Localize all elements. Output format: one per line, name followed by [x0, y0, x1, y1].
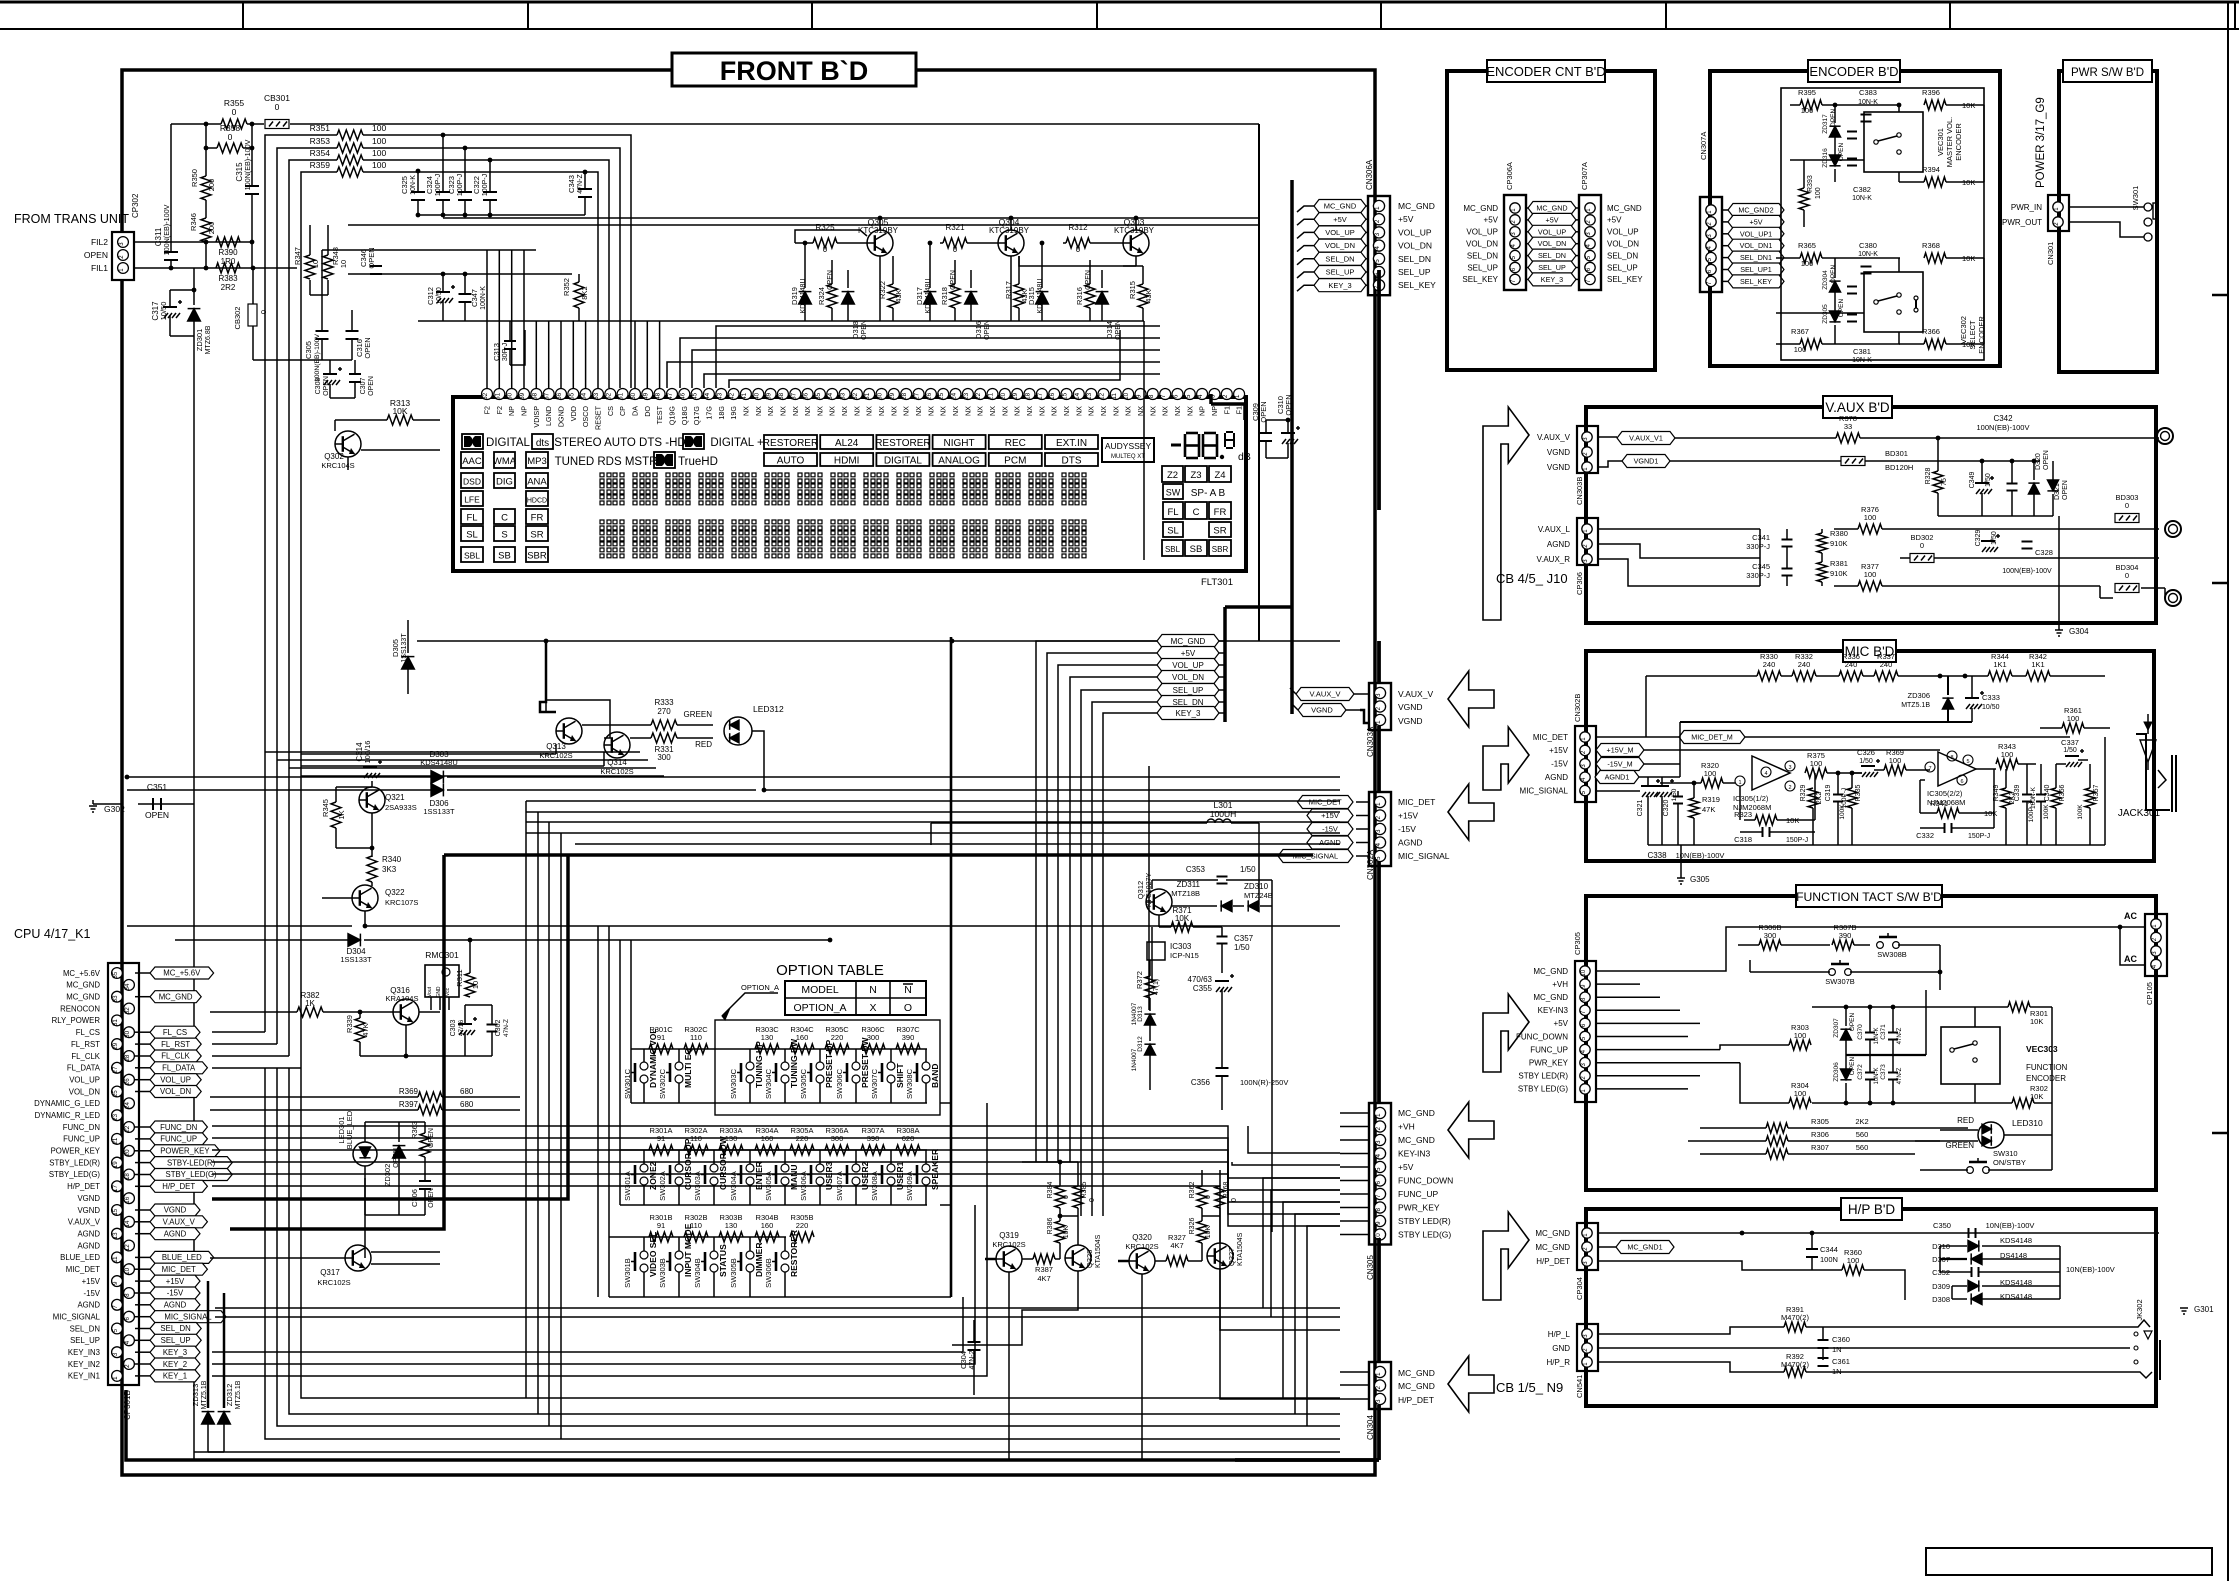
svg-text:MC_+5.6V: MC_+5.6V: [63, 969, 101, 978]
svg-text:BD301: BD301: [1885, 449, 1908, 458]
svg-text:20: 20: [124, 1149, 131, 1156]
svg-text:C353: C353: [1186, 865, 1206, 874]
FROM TRANS UNIT label: [14, 212, 129, 226]
svg-text:ZONE2: ZONE2: [648, 1161, 658, 1190]
svg-text:+15V: +15V: [1398, 811, 1418, 821]
ENCODER CNT B'D board box: [1447, 60, 1655, 370]
wire bottom bundle: [126, 1068, 1379, 1460]
svg-text:FR: FR: [531, 513, 544, 524]
svg-text:25: 25: [938, 392, 945, 400]
svg-text:MIC_DET: MIC_DET: [1533, 733, 1568, 742]
svg-text:KDS4148U: KDS4148U: [925, 278, 932, 313]
wire: [125, 775, 1340, 780]
svg-text:C383: C383: [1859, 88, 1877, 97]
svg-text:28: 28: [901, 392, 908, 400]
svg-text:CB302: CB302: [233, 307, 242, 330]
svg-text:43K: 43K: [1144, 289, 1153, 302]
wire: [1123, 265, 1143, 267]
svg-text:ZD306: ZD306: [1907, 691, 1930, 700]
capacitor C303: [450, 1005, 477, 1056]
ferrite BD301: [1670, 449, 2040, 472]
svg-text:DIGITAL: DIGITAL: [486, 437, 530, 449]
svg-text:STBY_LED(R): STBY_LED(R): [49, 1158, 100, 1167]
svg-text:2K2: 2K2: [1816, 792, 1823, 805]
svg-text:IC305(2/2): IC305(2/2): [1927, 789, 1963, 798]
row A resistors: [649, 1126, 920, 1155]
capacitor C372: [1857, 1064, 1880, 1085]
svg-text:C322: C322: [472, 176, 481, 194]
zener ZD312: [218, 1293, 242, 1452]
svg-text:130: 130: [725, 1221, 738, 1230]
capacitor C-open: [2007, 459, 2018, 516]
svg-text:H/P B'D: H/P B'D: [1848, 1202, 1896, 1217]
capacitor C329: [1975, 530, 2000, 552]
wire: [310, 225, 328, 295]
svg-text:MC_GND2: MC_GND2: [1738, 206, 1773, 215]
svg-text:G305: G305: [1690, 875, 1710, 884]
svg-text:STBY_LED(G): STBY_LED(G): [49, 1170, 101, 1179]
wire: [2100, 586, 2165, 598]
wire: [301, 752, 604, 766]
diode D309: [1932, 1278, 2060, 1292]
resistor R355: [221, 98, 247, 129]
svg-text:C337: C337: [2061, 738, 2079, 747]
wire: [204, 122, 255, 148]
svg-text:G301: G301: [2194, 1305, 2214, 1314]
svg-text:H/P_L: H/P_L: [1548, 1330, 1571, 1339]
svg-text:Q317: Q317: [320, 1268, 340, 1277]
svg-text:R384: R384: [1047, 1182, 1054, 1199]
svg-text:R306: R306: [1811, 1130, 1829, 1139]
svg-text:+5V: +5V: [1181, 649, 1196, 658]
FL display pin row: [482, 389, 1245, 430]
resistor R396: [1922, 88, 1984, 110]
svg-text:NX: NX: [1013, 406, 1022, 416]
svg-text:+15V_M: +15V_M: [1607, 746, 1634, 755]
encoder VEC302: [1864, 272, 1986, 354]
svg-text:100N(EB)-100V: 100N(EB)-100V: [162, 204, 171, 255]
resistor R367: [1776, 327, 1900, 354]
svg-text:Q314: Q314: [607, 758, 627, 767]
capacitor C350: [1933, 1221, 2159, 1238]
svg-text:28: 28: [124, 1054, 131, 1061]
svg-text:SBR: SBR: [1212, 545, 1229, 554]
svg-text:CURSOR-DW: CURSOR-DW: [718, 1135, 728, 1190]
svg-text:C: C: [1193, 507, 1200, 518]
svg-text:390: 390: [1839, 931, 1852, 940]
svg-text:VOL_UP1: VOL_UP1: [1740, 229, 1772, 238]
svg-text:2: 2: [1375, 706, 1382, 710]
svg-text:SP- A B: SP- A B: [1191, 488, 1226, 499]
svg-text:KRC102S: KRC102S: [992, 1240, 1025, 1249]
svg-text:30P-J: 30P-J: [502, 343, 509, 361]
switch SW301: [2131, 186, 2158, 241]
capacitor C357: [1217, 927, 1254, 973]
svg-text:Z2: Z2: [1167, 470, 1178, 481]
svg-text:34: 34: [827, 392, 834, 400]
svg-text:MTZ5.1B: MTZ5.1B: [235, 1380, 242, 1409]
svg-text:ZD311: ZD311: [1177, 880, 1201, 889]
svg-text:FL_RST: FL_RST: [71, 1040, 100, 1049]
svg-text:V.AUX_L: V.AUX_L: [1538, 525, 1571, 534]
resistor R394: [1899, 165, 1984, 187]
wire: [1898, 945, 1942, 990]
capacitor C355: [1188, 974, 1234, 1068]
svg-text:ZD307: ZD307: [1833, 1018, 1840, 1038]
display legend row2 left: [461, 452, 718, 468]
svg-text:SEL_UP: SEL_UP: [1538, 263, 1566, 272]
svg-text:MC_+5.6V: MC_+5.6V: [163, 969, 201, 978]
op-amp IC305(2/2): [1925, 751, 1976, 807]
svg-text:SW307A: SW307A: [835, 1171, 844, 1201]
capacitor C347: [459, 272, 488, 321]
net VGND1: [1598, 455, 1670, 468]
svg-text:4: 4: [1197, 394, 1204, 398]
zener ZD310: [1233, 882, 1273, 912]
svg-text:6: 6: [1173, 394, 1180, 398]
svg-text:X: X: [869, 1002, 876, 1014]
svg-text:29: 29: [889, 392, 896, 400]
svg-text:ENCODER: ENCODER: [1954, 123, 1963, 161]
svg-text:POWER_KEY: POWER_KEY: [160, 1147, 210, 1156]
zener ZD306m: [1901, 676, 1953, 722]
svg-text:SW304C: SW304C: [764, 1068, 773, 1099]
arrow to H/P board: [1483, 1212, 1529, 1300]
svg-text:Q312: Q312: [1136, 881, 1145, 899]
resistor R392: [1598, 1352, 2130, 1377]
diode D315: [1027, 241, 1048, 321]
wire: [1596, 790, 1640, 792]
svg-text:RMC301: RMC301: [425, 950, 459, 960]
wire: [1596, 984, 2052, 1170]
svg-text:SEL_DN: SEL_DN: [1467, 251, 1498, 260]
resistor R369: [210, 1087, 520, 1102]
svg-text:MIC_SIGNAL: MIC_SIGNAL: [1520, 786, 1569, 795]
display legend row2 boxes: [764, 453, 1098, 467]
svg-text:SW302A: SW302A: [658, 1171, 667, 1201]
ferrite CB302: [233, 266, 324, 360]
svg-text:R397: R397: [399, 1100, 419, 1109]
svg-text:270: 270: [657, 707, 671, 716]
svg-text:USER1: USER1: [895, 1161, 905, 1190]
CN305 net labels: [1340, 1108, 1453, 1240]
capacitor C324: [425, 133, 450, 218]
svg-text:ICP-N15: ICP-N15: [1170, 951, 1199, 960]
svg-text:NX: NX: [976, 406, 985, 416]
svg-text:NX: NX: [939, 406, 948, 416]
row A switches: [623, 1135, 940, 1205]
svg-text:C370: C370: [1857, 1024, 1864, 1040]
svg-text:MIC_DET: MIC_DET: [1309, 798, 1342, 807]
svg-text:36: 36: [803, 392, 810, 400]
svg-text:+5V: +5V: [1333, 215, 1347, 224]
svg-text:TUNING DW: TUNING DW: [789, 1038, 799, 1088]
svg-text:O: O: [904, 1002, 912, 1014]
svg-text:10/50: 10/50: [436, 287, 443, 305]
svg-text:48: 48: [655, 392, 662, 400]
svg-text:R357: R357: [2093, 785, 2100, 802]
svg-text:OPEN: OPEN: [861, 320, 868, 340]
ENCODER B'D board box: [1710, 60, 2000, 366]
svg-text:KRC104S: KRC104S: [321, 461, 354, 470]
svg-text:MC_GND: MC_GND: [1398, 201, 1435, 211]
svg-text:H/P_DET: H/P_DET: [162, 1182, 195, 1191]
svg-text:NP: NP: [1198, 406, 1207, 416]
svg-text:ZD301: ZD301: [195, 329, 204, 352]
svg-text:100: 100: [1801, 259, 1814, 268]
svg-text:R333: R333: [654, 698, 674, 707]
resistor R339: [345, 1010, 370, 1056]
svg-text:1N: 1N: [1832, 1367, 1842, 1376]
svg-text:ZD317: ZD317: [1822, 114, 1829, 134]
svg-text:R387: R387: [1035, 1265, 1053, 1274]
net +15V_M: [1596, 744, 1940, 757]
wire bus R359: [212, 172, 598, 1068]
svg-text:MTZ18B: MTZ18B: [1171, 889, 1200, 898]
svg-text:0: 0: [953, 245, 958, 254]
svg-text:CN306A: CN306A: [1365, 159, 1374, 190]
FRONT board outline: [122, 70, 1375, 1475]
wire: [546, 700, 610, 738]
resistor R376: [1834, 505, 2159, 534]
svg-text:SEL_UP: SEL_UP: [161, 1336, 191, 1345]
svg-text:+5V: +5V: [1398, 1162, 1414, 1172]
svg-text:7: 7: [1160, 394, 1167, 398]
row B resistors: [649, 1213, 814, 1242]
ground G301: [2180, 1233, 2214, 1314]
svg-text:MIC_SIGNAL: MIC_SIGNAL: [164, 1312, 212, 1321]
wire: [418, 214, 585, 216]
svg-text:130: 130: [761, 1033, 774, 1042]
capacitor C318: [1734, 827, 1815, 844]
net MIC_DET_M: [1596, 731, 2070, 744]
svg-text:AGND: AGND: [1319, 838, 1341, 847]
diode D316 (OPEN): [965, 270, 991, 340]
svg-text:OPEN: OPEN: [145, 810, 169, 820]
svg-text:CN304: CN304: [1366, 1415, 1375, 1440]
svg-text:FUNC_UP: FUNC_UP: [63, 1135, 100, 1144]
svg-text:CP307A: CP307A: [1580, 162, 1589, 190]
wire bus R353: [212, 148, 620, 1044]
svg-text:ANA: ANA: [527, 477, 547, 488]
svg-text:TUNING UP: TUNING UP: [754, 1041, 764, 1088]
V.AUX B'D board box: [1586, 396, 2156, 623]
wire: [1938, 515, 2053, 517]
svg-text:KTA1504S: KTA1504S: [1095, 1234, 1102, 1268]
svg-text:MIC_DET: MIC_DET: [1398, 797, 1435, 807]
diode D320: [2028, 450, 2050, 516]
svg-text:G304: G304: [2069, 627, 2089, 636]
svg-text:R350: R350: [190, 169, 199, 187]
svg-text:AUTO: AUTO: [777, 456, 805, 467]
svg-text:27: 27: [112, 1066, 119, 1073]
svg-text:RED: RED: [695, 740, 712, 749]
svg-text:MC_GND: MC_GND: [1398, 1368, 1435, 1378]
svg-text:CP305: CP305: [1573, 932, 1582, 955]
svg-text:DIGITAL +: DIGITAL +: [710, 437, 764, 449]
svg-text:+5V: +5V: [1484, 216, 1499, 225]
svg-text:TEST: TEST: [655, 405, 664, 424]
capacitor C349: [1969, 459, 1994, 516]
svg-text:23: 23: [963, 392, 970, 400]
capacitor C360: [1818, 1327, 1850, 1360]
capacitor C346: [359, 247, 382, 274]
resistor R377: [1834, 562, 2100, 591]
svg-text:12: 12: [1099, 392, 1106, 400]
svg-text:C328: C328: [2035, 548, 2053, 557]
svg-text:7: 7: [1375, 1194, 1382, 1198]
svg-text:C381: C381: [1853, 347, 1871, 356]
svg-text:220: 220: [796, 1221, 809, 1230]
wire: [1118, 1260, 1166, 1263]
svg-text:H/P_DET: H/P_DET: [1398, 1395, 1434, 1405]
svg-text:SW304B: SW304B: [693, 1258, 702, 1288]
svg-text:FR: FR: [1214, 507, 1227, 518]
resistor R354: [310, 148, 387, 165]
svg-text:MANU: MANU: [789, 1165, 799, 1191]
svg-text:CP: CP: [618, 406, 627, 416]
svg-text:STBY LED(R): STBY LED(R): [1398, 1216, 1451, 1226]
diode D321: [2047, 461, 2069, 516]
svg-text:6: 6: [1375, 1180, 1382, 1184]
svg-text:INPUT MODE: INPUT MODE: [683, 1223, 693, 1277]
wire: [322, 250, 572, 360]
svg-text:MC_GND: MC_GND: [66, 993, 100, 1002]
svg-text:AAC: AAC: [462, 456, 482, 467]
svg-text:C357: C357: [1234, 934, 1254, 943]
svg-text:MTZ5.1B: MTZ5.1B: [1901, 702, 1930, 709]
wire: [1220, 1269, 1340, 1330]
capacitor C306: [410, 1181, 435, 1208]
connector CN302A: [1366, 792, 1391, 880]
svg-text:NX: NX: [741, 406, 750, 416]
svg-text:SW: SW: [1166, 488, 1181, 498]
svg-text:Q19G: Q19G: [668, 406, 677, 426]
IC RMC301: [425, 950, 459, 1010]
svg-text:4: 4: [1374, 246, 1381, 250]
svg-text:4: 4: [1764, 771, 1767, 777]
svg-text:SW303C: SW303C: [729, 1068, 738, 1099]
resistor R351: [310, 123, 387, 140]
resistor R386: [1047, 1218, 1070, 1243]
svg-text:52: 52: [605, 392, 612, 400]
svg-text:VOL_DN: VOL_DN: [1538, 239, 1567, 248]
resistor R387: [1033, 1254, 1055, 1283]
MIC resistor ladder: [1646, 652, 2105, 737]
wire row A rails: [620, 1150, 951, 1205]
svg-text:OPEN: OPEN: [827, 270, 834, 290]
svg-text:SW307B: SW307B: [1825, 977, 1855, 986]
svg-text:R396: R396: [1922, 88, 1940, 97]
CB 4/5_J10 label: [1496, 571, 1568, 586]
wire: [1144, 321, 1149, 1010]
row B switches: [623, 1223, 799, 1297]
svg-text:FL_CLK: FL_CLK: [161, 1052, 190, 1061]
svg-text:100: 100: [1847, 1256, 1860, 1265]
transistor Q314: [600, 732, 633, 776]
svg-text:300: 300: [831, 1134, 844, 1143]
wire trunk: [1259, 124, 1292, 714]
svg-text:AGND: AGND: [77, 1230, 100, 1239]
capacitor C361: [1818, 1357, 1850, 1376]
svg-text:8: 8: [1148, 394, 1155, 398]
capacitor C339: [2014, 764, 2037, 845]
transistor Q304: [989, 217, 1030, 256]
svg-text:+VH: +VH: [1398, 1122, 1415, 1132]
svg-text:C372: C372: [1857, 1064, 1864, 1080]
svg-text:R321: R321: [945, 223, 965, 232]
svg-text:2: 2: [1788, 785, 1791, 791]
svg-text:53: 53: [593, 392, 600, 400]
svg-text:Z3: Z3: [1190, 470, 1201, 481]
resistor R375: [1790, 751, 1862, 778]
svg-text:29: 29: [112, 1042, 119, 1049]
resistor R306B: [1738, 923, 1830, 950]
svg-text:MC_GND: MC_GND: [1535, 1243, 1570, 1252]
svg-text:30: 30: [877, 392, 884, 400]
svg-text:MIC_DET: MIC_DET: [162, 1265, 196, 1274]
svg-text:11: 11: [112, 1256, 119, 1263]
svg-text:+5V: +5V: [1546, 215, 1559, 224]
svg-text:C325: C325: [400, 176, 409, 194]
svg-text:OPEN: OPEN: [1830, 264, 1837, 283]
svg-text:390: 390: [902, 1033, 915, 1042]
wire: [1648, 777, 1662, 845]
svg-text:NP: NP: [1210, 406, 1219, 416]
svg-text:7: 7: [1928, 766, 1931, 772]
svg-text:MASTER VOL.: MASTER VOL.: [1945, 117, 1954, 167]
OPTION_A arrow: [722, 983, 779, 1020]
svg-text:20: 20: [1000, 392, 1007, 400]
svg-text:35: 35: [815, 392, 822, 400]
resistor R307B: [1832, 923, 1870, 950]
svg-text:C347: C347: [470, 289, 479, 307]
svg-text:RESTORER: RESTORER: [763, 438, 818, 449]
resistor R333: [582, 698, 713, 730]
CN306A net labels: [1297, 200, 1436, 292]
svg-text:6: 6: [1960, 779, 1963, 785]
svg-text:FL: FL: [1167, 507, 1178, 518]
svg-text:10/50: 10/50: [1982, 704, 2000, 711]
svg-text:560: 560: [1856, 1130, 1869, 1139]
resistor R349: [1993, 769, 2016, 845]
svg-text:C380: C380: [1859, 241, 1877, 250]
svg-text:SW308B: SW308B: [1877, 950, 1907, 959]
svg-text:SEL_UP: SEL_UP: [1173, 686, 1204, 695]
resistor R371: [1159, 906, 1222, 932]
resistor R341: [1920, 780, 1997, 818]
svg-text:NIGHT: NIGHT: [944, 438, 975, 449]
svg-text:300: 300: [1764, 931, 1777, 940]
capacitor C352: [1932, 1265, 2115, 1277]
svg-text:100P-J: 100P-J: [457, 174, 464, 196]
svg-text:1/50: 1/50: [1985, 473, 1992, 487]
svg-text:18G: 18G: [717, 406, 726, 420]
svg-text:NX: NX: [988, 406, 997, 416]
wire bus to display pins 2: [667, 326, 1160, 388]
svg-text:STBY-LED(R): STBY-LED(R): [167, 1158, 216, 1167]
resistor R325: [795, 223, 867, 254]
svg-text:13: 13: [112, 1232, 119, 1239]
capacitor C320: [1655, 779, 1678, 816]
svg-text:MC_GND: MC_GND: [1398, 1135, 1435, 1145]
resistor R304: [1762, 1081, 1811, 1108]
capacitor C305: [304, 331, 329, 382]
svg-text:680: 680: [460, 1100, 474, 1109]
ferrite BD304: [2115, 563, 2139, 593]
svg-text:17: 17: [112, 1185, 119, 1192]
resistor R358: [217, 123, 243, 153]
